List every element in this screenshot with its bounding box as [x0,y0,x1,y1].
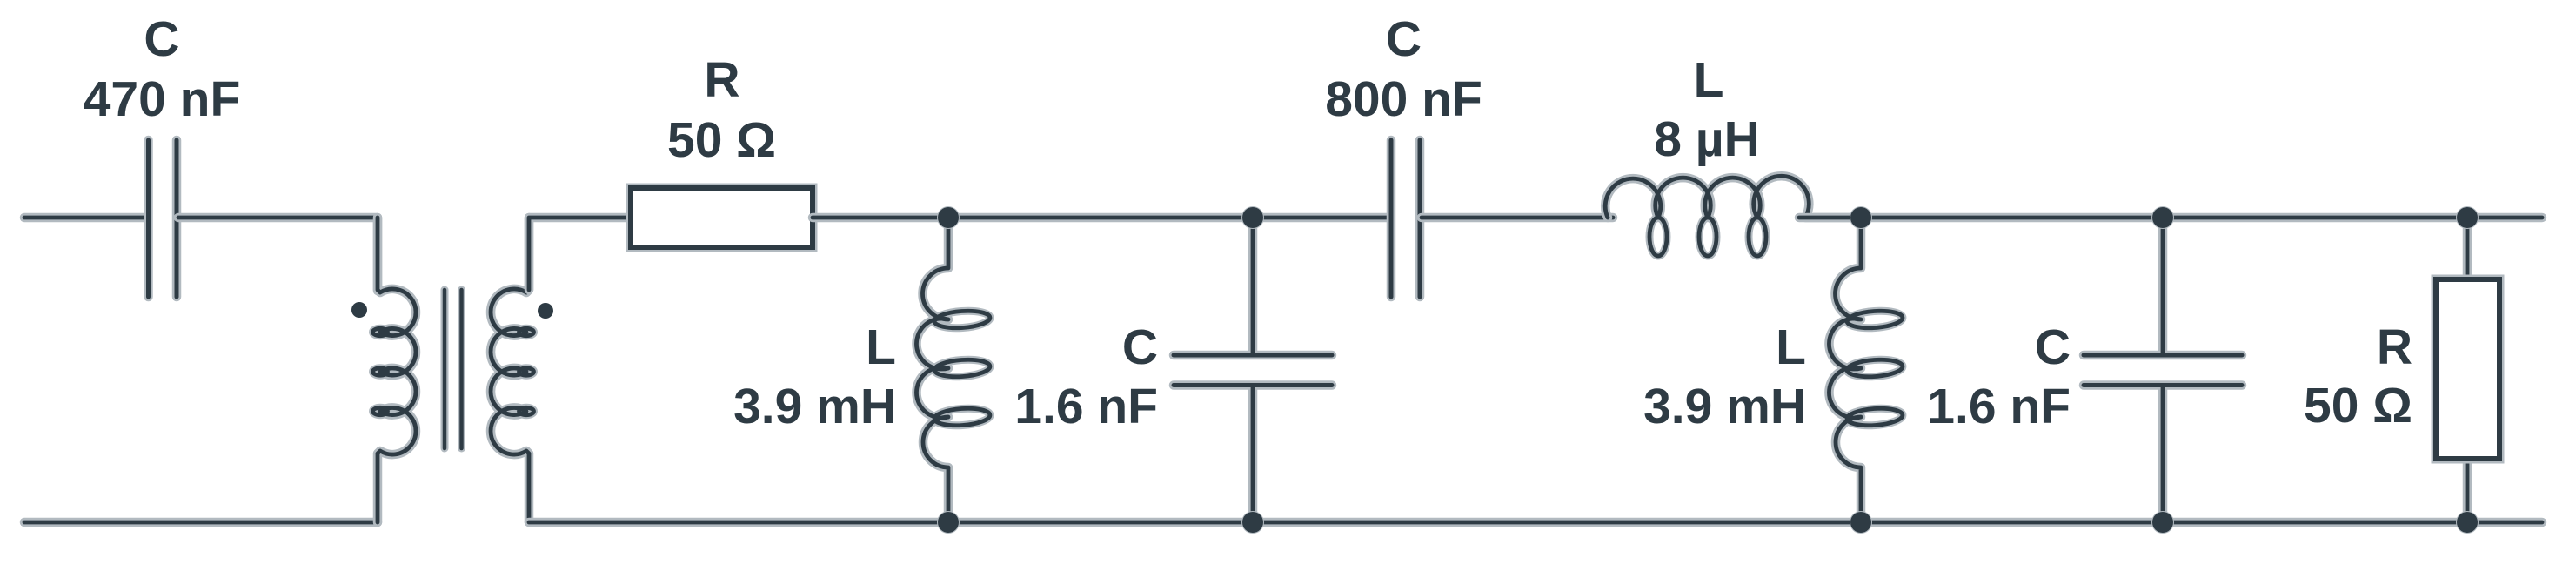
wire: R to series cap 800 nF [813,213,1389,223]
svg-text:L: L [866,319,896,375]
label C 1.6 nF (shunt 2) [1927,319,2071,434]
resistor R 50 ohm (series) [631,188,813,247]
svg-text:50 Ω: 50 Ω [2304,378,2412,433]
inductor L 8 uH (series) [1605,176,1861,256]
capacitor C 1.6 nF (shunt 2) [2084,218,2242,522]
label C 1.6 nF (shunt 1) [1014,319,1158,434]
svg-text:470 nF: 470 nF [84,71,241,127]
label L 3.9 mH (shunt 2) [1643,319,1806,434]
node: bottom of L shunt 2 [1850,511,1872,534]
node: top of load resistor [2456,206,2479,229]
node: bottom of C shunt 2 [2151,511,2174,534]
wire: series cap to L 8uH [1422,213,1613,223]
svg-text:L: L [1776,319,1806,375]
node: top of C shunt 2 [2151,206,2174,229]
node: top of L shunt 2 [1850,206,1872,229]
wire: L 8uH to output [1799,213,2542,223]
svg-text:800 nF: 800 nF [1325,71,1482,127]
label L 3.9 mH (shunt 1) [733,319,896,434]
svg-text:R: R [704,52,739,108]
node: bottom of L shunt 1 [937,511,960,534]
svg-text:C: C [2035,319,2071,375]
wire: secondary top to R 50 [529,218,631,290]
wire: output bottom lead [529,518,2542,527]
svg-text:C: C [144,11,179,67]
svg-text:3.9 mH: 3.9 mH [1643,379,1806,434]
inductor L 3.9 mH (shunt 2) [1829,218,1903,522]
svg-text:50 Ω: 50 Ω [667,112,776,168]
transformer T1 primary winding [373,218,416,522]
capacitor C 470 nF (series, input) [149,140,177,297]
label C 470 nF [84,11,241,127]
resistor R 50 ohm (load) [2436,279,2499,459]
svg-text:1.6 nF: 1.6 nF [1014,379,1158,434]
svg-text:R: R [2377,319,2412,375]
svg-text:L: L [1694,52,1724,108]
inductor L 3.9 mH (shunt 1) [916,218,990,522]
svg-text:C: C [1386,11,1422,67]
node: top of L shunt 1 [937,206,960,229]
svg-text:1.6 nF: 1.6 nF [1927,379,2071,434]
node: bottom of load resistor [2456,511,2479,534]
wire: input top lead [24,213,146,223]
svg-text:3.9 mH: 3.9 mH [733,379,896,434]
transformer T1 polarity dot (primary) [351,302,367,318]
transformer T1 polarity dot (secondary) [538,303,553,319]
svg-text:8 µH: 8 µH [1654,111,1760,167]
label L 8 uH [1654,52,1760,167]
capacitor C 800 nF (series) [1391,140,1420,297]
node: top of C shunt 1 [1241,206,1264,229]
svg-text:C: C [1122,319,1158,375]
wire: cap to transformer primary [178,218,378,291]
label R 50 ohm (load) [2304,319,2412,433]
label C 800 nF [1325,11,1482,127]
transformer T1 secondary winding [491,218,533,522]
wire: load resistor leads [2463,218,2472,522]
wire: input bottom lead [24,518,378,527]
capacitor C 1.6 nF (shunt 1) [1174,218,1332,522]
label R 50 ohm [667,52,776,168]
transformer T1 core [445,290,462,448]
node: bottom of C shunt 1 [1241,511,1264,534]
